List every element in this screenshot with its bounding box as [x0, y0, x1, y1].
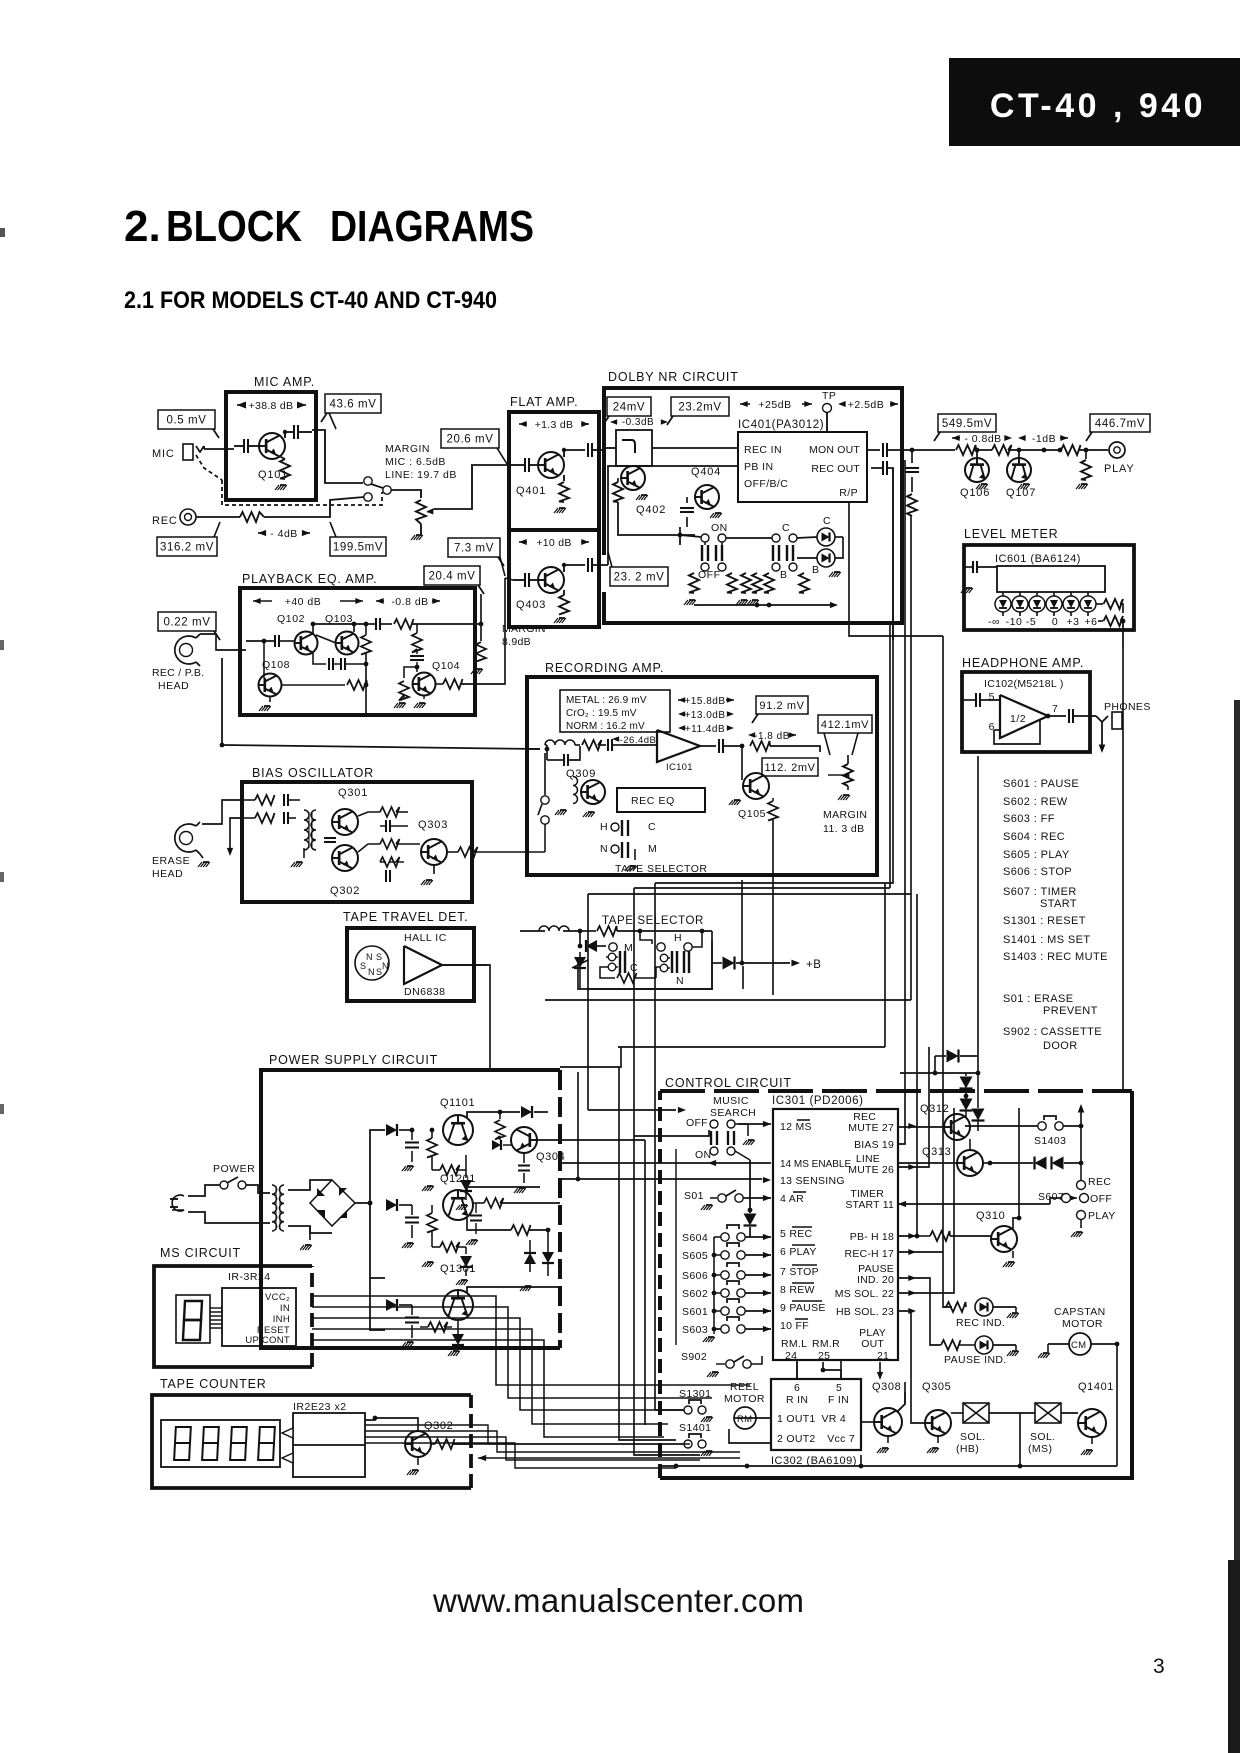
- svg-text:OFF: OFF: [698, 569, 721, 581]
- wire switch to pot: [391, 490, 421, 498]
- svg-text:MIC: MIC: [152, 448, 175, 460]
- svg-text:MARGIN: MARGIN: [385, 443, 430, 455]
- dolby bottom arrow wire: [694, 604, 757, 606]
- ground Q401: [559, 507, 565, 509]
- wire v917: [916, 894, 918, 1236]
- svg-text:-0.3dB: -0.3dB: [622, 417, 654, 428]
- svg-text:23. 2 mV: 23. 2 mV: [614, 572, 665, 584]
- callout 0.22mV: [158, 612, 216, 631]
- wire ms enable out: [708, 1160, 716, 1166]
- svg-text:B: B: [812, 564, 820, 576]
- q310 wires: [898, 1235, 917, 1237]
- callout 20.6mV: [441, 429, 499, 448]
- svg-text:5 REC: 5 REC: [780, 1228, 813, 1240]
- bias input resistors: [255, 795, 275, 805]
- IC301 right pin arrows: [908, 1123, 916, 1129]
- rec margin resistor: [800, 746, 820, 752]
- svg-text:Q403: Q403: [516, 599, 546, 611]
- wires dolby switch region: [680, 535, 701, 537]
- transistor Q107: [1007, 458, 1031, 482]
- svg-text:S: S: [376, 967, 383, 977]
- svg-text:DOOR: DOOR: [1043, 1040, 1078, 1052]
- svg-text:VR 4: VR 4: [821, 1413, 846, 1425]
- q304 base parts: [495, 1120, 505, 1140]
- svg-text:HB SOL. 23: HB SOL. 23: [836, 1306, 894, 1318]
- svg-text:Q106: Q106: [960, 487, 990, 499]
- wire filter to IC401: [652, 447, 738, 449]
- svg-text:HEAD: HEAD: [152, 868, 183, 880]
- node output row: [910, 448, 915, 453]
- svg-text:S606 : STOP: S606 : STOP: [1003, 866, 1072, 878]
- wire TP to IC401: [826, 413, 828, 432]
- tape selector top rail: [578, 929, 583, 934]
- svg-text:2.: 2.: [124, 202, 161, 251]
- svg-text:+11.4dB: +11.4dB: [685, 724, 725, 735]
- solenoid HB: [963, 1403, 989, 1423]
- svg-text:TAPE TRAVEL DET.: TAPE TRAVEL DET.: [343, 910, 469, 924]
- q1301 collector: [467, 1287, 560, 1293]
- bias rc network: [380, 807, 400, 817]
- svg-text:OUT: OUT: [861, 1338, 884, 1350]
- transistor Q309: [581, 780, 605, 804]
- svg-text:S605: S605: [682, 1250, 708, 1262]
- selector switch contacts: [364, 477, 372, 485]
- svg-text:TAPE SELECTOR: TAPE SELECTOR: [615, 863, 707, 875]
- svg-text:25: 25: [818, 1350, 830, 1362]
- dashed mic routing: [196, 455, 222, 480]
- svg-text:+3: +3: [1067, 616, 1080, 628]
- dolby led B: [817, 549, 835, 567]
- svg-text:START: START: [1040, 898, 1077, 910]
- svg-text:CAPSTAN: CAPSTAN: [1054, 1306, 1106, 1318]
- rec chain resistor: [582, 740, 602, 750]
- svg-text:- 4dB: - 4dB: [270, 528, 298, 540]
- svg-text:LEVEL METER: LEVEL METER: [964, 527, 1058, 541]
- wire collector: [284, 432, 286, 437]
- svg-text:+15.8dB: +15.8dB: [684, 696, 725, 707]
- ic101 in/out wires: [622, 744, 657, 746]
- diodes above control: [933, 1071, 938, 1076]
- node mid dolby: [678, 533, 683, 538]
- svg-text:S1401: S1401: [679, 1422, 711, 1434]
- svg-text:Q404: Q404: [691, 466, 721, 478]
- bridge output: [355, 1202, 370, 1204]
- svg-text:14 MS ENABLE: 14 MS ENABLE: [780, 1159, 851, 1170]
- svg-text:MS SOL. 22: MS SOL. 22: [835, 1288, 894, 1300]
- selector +B diode: [723, 957, 735, 970]
- IC302 box: [771, 1379, 861, 1450]
- resistor play shunt: [1081, 460, 1091, 480]
- svg-text:R/P: R/P: [839, 487, 858, 499]
- svg-text:R IN: R IN: [786, 1394, 808, 1406]
- q312 q313 connect: [969, 1139, 971, 1150]
- wire braid v634: [633, 888, 635, 1136]
- svg-text:S602: S602: [682, 1288, 708, 1300]
- capacitor flat out top: [587, 443, 589, 457]
- svg-text:TAPE COUNTER: TAPE COUNTER: [160, 1377, 267, 1391]
- resistor out 3: [1061, 445, 1081, 455]
- svg-text:S1301 : RESET: S1301 : RESET: [1003, 915, 1086, 927]
- capacitor bias mid: [324, 837, 336, 839]
- wire +B vertical: [741, 880, 743, 963]
- svg-text:412.1mV: 412.1mV: [821, 719, 869, 731]
- svg-text:RM: RM: [737, 1414, 752, 1425]
- svg-text:FLAT AMP.: FLAT AMP.: [510, 395, 578, 409]
- svg-text:MIC : 6.5dB: MIC : 6.5dB: [385, 456, 446, 468]
- callout 549.5mV: [938, 414, 996, 432]
- wire out row: [976, 449, 992, 451]
- callout 0.5mV: [158, 410, 215, 429]
- svg-text:ON: ON: [711, 522, 728, 534]
- wire mic to amp: [204, 448, 234, 450]
- page edge shadow: [1234, 700, 1240, 1753]
- svg-text:RM.R: RM.R: [812, 1338, 840, 1350]
- svg-text:REC: REC: [1088, 1176, 1111, 1188]
- svg-text:UP CONT: UP CONT: [245, 1335, 290, 1346]
- svg-text:IR-3R24: IR-3R24: [228, 1271, 271, 1283]
- rec ind led: [946, 1302, 966, 1312]
- zener pair q1201: [524, 1253, 536, 1264]
- bottom bus wire: [745, 1464, 750, 1469]
- svg-text:+13.0dB: +13.0dB: [684, 710, 725, 721]
- svg-text:+25dB: +25dB: [758, 399, 791, 411]
- svg-text:INH: INH: [273, 1314, 290, 1325]
- svg-text:OFF/B/C: OFF/B/C: [744, 478, 788, 490]
- ms ic box: [222, 1288, 296, 1346]
- svg-text:N: N: [600, 843, 608, 855]
- wire pot to flat amp: [434, 465, 509, 509]
- wire rec out vert: [888, 468, 893, 640]
- svg-text:7.3 mV: 7.3 mV: [454, 543, 494, 555]
- q1201 collector out: [467, 1187, 540, 1193]
- q1301 zener: [452, 1334, 464, 1345]
- tape level table box: [560, 690, 670, 732]
- block MIC AMP: [226, 392, 316, 500]
- svg-text:S1401 : MS SET: S1401 : MS SET: [1003, 934, 1091, 946]
- wire sensing: [576, 1177, 581, 1182]
- svg-text:9 PAUSE: 9 PAUSE: [780, 1302, 826, 1314]
- svg-text:POWER: POWER: [213, 1163, 255, 1175]
- svg-text:PLAYBACK EQ. AMP.: PLAYBACK EQ. AMP.: [242, 572, 377, 586]
- wire dolby out row: [867, 449, 880, 451]
- svg-text:RM.L: RM.L: [781, 1338, 807, 1350]
- svg-text:24mV: 24mV: [613, 402, 645, 414]
- q108 base feed: [263, 641, 265, 678]
- braid stair v655b: [654, 930, 656, 1410]
- svg-text:Q1101: Q1101: [440, 1097, 475, 1109]
- svg-text:N: N: [382, 961, 389, 971]
- svg-text:Q302: Q302: [424, 1420, 453, 1432]
- svg-text:S601 : PAUSE: S601 : PAUSE: [1003, 778, 1079, 790]
- transistor Q101: [259, 433, 285, 459]
- bias transformer: [304, 810, 309, 850]
- ground Q101: [280, 484, 286, 486]
- svg-text:C: C: [823, 515, 831, 527]
- wire head to pb amp: [200, 634, 246, 650]
- svg-text:Q105: Q105: [738, 808, 766, 820]
- svg-text:(HB): (HB): [956, 1443, 979, 1455]
- svg-text:11. 3 dB: 11. 3 dB: [823, 823, 865, 835]
- svg-text:316.2 mV: 316.2 mV: [160, 542, 214, 554]
- transistor Q104: [413, 673, 436, 696]
- svg-text:HEAD: HEAD: [158, 680, 189, 692]
- svg-text:MARGIN: MARGIN: [823, 809, 867, 821]
- svg-text:13 SENSING: 13 SENSING: [780, 1175, 845, 1187]
- hall ic triangle: [404, 946, 442, 984]
- gain rows rec amp: [678, 697, 685, 703]
- resistor -1.8db: [748, 732, 755, 738]
- meter cap in: [972, 561, 974, 573]
- transistor Q404: [695, 485, 719, 509]
- svg-text:MARGIN: MARGIN: [502, 623, 546, 635]
- wire filter in: [604, 447, 616, 449]
- resistor out 1: [956, 445, 976, 455]
- svg-text:PREVENT: PREVENT: [1043, 1005, 1098, 1017]
- svg-text:6 PLAY: 6 PLAY: [780, 1246, 817, 1258]
- wire q308 collector up: [897, 1382, 905, 1412]
- svg-text:REEL: REEL: [730, 1381, 759, 1393]
- potentiometer level: [416, 500, 426, 524]
- erase head symbol: [175, 824, 196, 852]
- diode sw column: [748, 1208, 753, 1213]
- svg-text:8.9dB: 8.9dB: [502, 636, 531, 648]
- braid stair v634b: [634, 1136, 700, 1455]
- wire pin23 to q305: [898, 1311, 925, 1423]
- rec input coil: [545, 740, 575, 745]
- svg-text:BIAS OSCILLATOR: BIAS OSCILLATOR: [252, 766, 374, 780]
- rec eq box: [617, 788, 705, 812]
- svg-text:S601: S601: [682, 1306, 708, 1318]
- svg-text:PLAY: PLAY: [1088, 1210, 1116, 1222]
- wire Q402 to pbin: [618, 502, 680, 535]
- wire bias pin19: [898, 460, 905, 1144]
- callout 412.1mV: [818, 715, 872, 733]
- counter display: [161, 1420, 280, 1467]
- svg-text:24: 24: [785, 1350, 797, 1362]
- wire on row: [634, 1130, 709, 1136]
- svg-text:MOTOR: MOTOR: [1062, 1318, 1103, 1330]
- gain -0.8dB pb: [376, 598, 384, 604]
- svg-text:-5: -5: [1026, 616, 1036, 628]
- callout 199.5mV: [330, 537, 386, 556]
- gain +25dB: [740, 401, 748, 407]
- svg-text:+2.5dB: +2.5dB: [848, 399, 885, 411]
- svg-text:+6: +6: [1085, 616, 1098, 628]
- transistor Q402: [621, 466, 645, 490]
- svg-text:+1.3 dB: +1.3 dB: [535, 419, 574, 431]
- wire head down: [221, 658, 223, 745]
- resistor Q401 emitter: [559, 482, 569, 502]
- headphone caps: [975, 693, 977, 707]
- svg-text:20.4 mV: 20.4 mV: [428, 571, 475, 583]
- svg-text:S603: S603: [682, 1324, 708, 1336]
- mic jack symbol: [183, 444, 193, 460]
- svg-text:MUTE 26: MUTE 26: [848, 1164, 894, 1176]
- pause ind led: [941, 1340, 961, 1350]
- tape selector coil: [539, 926, 569, 931]
- svg-text:(MS): (MS): [1028, 1443, 1052, 1455]
- svg-text:DOLBY NR CIRCUIT: DOLBY NR CIRCUIT: [608, 370, 739, 384]
- callout 24mV: [607, 397, 651, 416]
- svg-text:S01 : ERASE: S01 : ERASE: [1003, 993, 1073, 1005]
- ms wire: [738, 1123, 762, 1125]
- q1101 network diode: [386, 1124, 397, 1136]
- wire Q401 collector out: [564, 450, 585, 457]
- svg-text:IN: IN: [280, 1303, 290, 1314]
- svg-text:8 REW: 8 REW: [780, 1284, 815, 1296]
- block FLAT AMP: [509, 412, 599, 627]
- callout 112.2mV: [762, 758, 818, 776]
- svg-text:S: S: [360, 961, 367, 971]
- wire erase head: [202, 800, 242, 824]
- svg-text:12 MS: 12 MS: [780, 1121, 812, 1133]
- resistor out 2: [992, 445, 1012, 455]
- svg-text:S1403 : REC MUTE: S1403 : REC MUTE: [1003, 951, 1108, 963]
- reel motor wires: [734, 1417, 771, 1419]
- capacitor rec out: [882, 461, 884, 475]
- wire ms arrow into control: [588, 1109, 676, 1111]
- capacitor Q403 in: [524, 573, 526, 587]
- gain +40dB: [253, 598, 261, 604]
- capacitor Q404: [680, 507, 694, 509]
- counter bus to right: [365, 1425, 684, 1444]
- sw enclosure: [675, 1149, 677, 1345]
- svg-text:CT-40 , 940: CT-40 , 940: [990, 87, 1206, 125]
- svg-text:-1dB: -1dB: [1032, 433, 1056, 445]
- wire braid h1000: [545, 999, 911, 1001]
- svg-text:VCC₂: VCC₂: [265, 1292, 290, 1303]
- braid stair v645: [560, 1139, 645, 1141]
- svg-text:CONTROL CIRCUIT: CONTROL CIRCUIT: [665, 1076, 792, 1090]
- svg-text:Q305: Q305: [922, 1381, 951, 1393]
- callout 20.4mV: [424, 566, 480, 585]
- svg-text:3: 3: [1153, 1655, 1165, 1678]
- svg-text:HALL IC: HALL IC: [404, 932, 447, 944]
- wire braid v655: [654, 883, 656, 930]
- svg-text:HEADPHONE AMP.: HEADPHONE AMP.: [962, 656, 1084, 670]
- svg-text:PB- H 18: PB- H 18: [850, 1231, 894, 1243]
- q1301 network: [386, 1299, 397, 1311]
- transistor Q105: [743, 773, 769, 799]
- svg-text:REC EQ: REC EQ: [631, 795, 675, 807]
- svg-text:CrO₂ : 19.5 mV: CrO₂ : 19.5 mV: [566, 708, 637, 719]
- svg-text:SEARCH: SEARCH: [710, 1107, 756, 1119]
- selector zener: [578, 944, 583, 949]
- svg-text:4 AR: 4 AR: [780, 1193, 804, 1205]
- resistor rec line: [240, 512, 264, 522]
- wire level meter down: [1122, 648, 1124, 1091]
- hall sensor magnet: [355, 946, 389, 980]
- resistor Q101 emitter: [280, 459, 290, 479]
- svg-text:Q301: Q301: [338, 787, 368, 799]
- headphone opamp: [1000, 695, 1048, 738]
- wire timer start: [898, 1201, 906, 1207]
- 7seg digit ms: [176, 1295, 210, 1343]
- svg-text:Q402: Q402: [636, 504, 666, 516]
- svg-text:REC OUT: REC OUT: [811, 463, 860, 475]
- wire arrow into counter: [478, 1455, 486, 1461]
- svg-text:NORM : 16.2 mV: NORM : 16.2 mV: [566, 721, 645, 732]
- svg-text:N: N: [368, 967, 375, 977]
- q304 emitter wire: [537, 1139, 560, 1141]
- svg-text:S605 : PLAY: S605 : PLAY: [1003, 849, 1070, 861]
- q104 base network: [404, 667, 417, 678]
- svg-text:112. 2mV: 112. 2mV: [764, 762, 815, 774]
- rec input cap: [563, 754, 565, 766]
- svg-text:IC601 (BA6124): IC601 (BA6124): [995, 553, 1081, 565]
- svg-text:S604 : REC: S604 : REC: [1003, 831, 1065, 843]
- selector C bars: [606, 956, 610, 958]
- ground Q403: [559, 617, 565, 619]
- svg-text:21: 21: [877, 1350, 889, 1362]
- wire linemute pin26: [898, 1047, 929, 1167]
- wire rml rmr down: [796, 1362, 798, 1379]
- svg-text:DN6838: DN6838: [404, 986, 446, 998]
- svg-text:C: C: [648, 821, 656, 833]
- capacitor flat out bottom: [587, 558, 589, 572]
- bridge rectifier: [288, 1180, 332, 1190]
- svg-text:REC IND.: REC IND.: [956, 1317, 1005, 1329]
- transistor Q302 bias: [332, 845, 358, 871]
- transistor Q108: [259, 674, 282, 697]
- transistor Q403: [538, 567, 564, 593]
- selector bottom rail: [587, 988, 713, 990]
- svg-text:Q108: Q108: [262, 659, 290, 671]
- wire pin22 up: [898, 1108, 954, 1293]
- callout 7.3mV: [448, 538, 500, 557]
- svg-text:1 OUT1: 1 OUT1: [777, 1413, 816, 1425]
- rec out cap: [718, 739, 720, 753]
- q104 out resistor: [443, 679, 463, 689]
- counter q302 resistor: [435, 1439, 455, 1449]
- bias out resistor: [458, 847, 478, 857]
- wire braid v588: [587, 894, 589, 1110]
- arrow up right: [1080, 1112, 1082, 1126]
- power transformer: [272, 1185, 277, 1231]
- svg-text:Q309: Q309: [566, 768, 596, 780]
- svg-text:0.22 mV: 0.22 mV: [163, 617, 210, 629]
- svg-text:5: 5: [989, 691, 995, 703]
- headphone feedback: [994, 719, 1040, 744]
- transistor Q103: [336, 632, 359, 655]
- svg-text:PAUSE IND.: PAUSE IND.: [944, 1354, 1007, 1366]
- svg-text:S01: S01: [684, 1190, 704, 1202]
- svg-text:43.6 mV: 43.6 mV: [329, 399, 376, 411]
- svg-text:549.5mV: 549.5mV: [942, 418, 992, 430]
- selector H jog: [640, 931, 652, 944]
- counter driver box: [293, 1413, 365, 1477]
- callout 91.2mV: [756, 696, 808, 714]
- tape selector enclosure: [578, 940, 712, 989]
- capacitor mic in: [243, 439, 245, 453]
- resistor Q402 base: [613, 482, 623, 502]
- pb main divider resistor: [361, 635, 371, 655]
- svg-text:+38.8 dB: +38.8 dB: [249, 400, 294, 412]
- svg-text:RECORDING AMP.: RECORDING AMP.: [545, 661, 664, 675]
- lowpass filter box: [616, 430, 652, 466]
- level meter leds: [995, 596, 1011, 612]
- svg-text:-1.8 dB: -1.8 dB: [754, 731, 790, 742]
- q108 bias row: [282, 684, 345, 686]
- q309 coil: [573, 777, 578, 804]
- svg-text:Q102: Q102: [277, 613, 305, 625]
- q1201 network: [386, 1199, 397, 1211]
- callout 446.7mV: [1090, 414, 1150, 432]
- model number badge: [949, 58, 1240, 146]
- svg-text:0.5 mV: 0.5 mV: [166, 415, 206, 427]
- svg-text:- 0.8dB: - 0.8dB: [964, 433, 1001, 445]
- svg-text:IC101: IC101: [666, 762, 693, 773]
